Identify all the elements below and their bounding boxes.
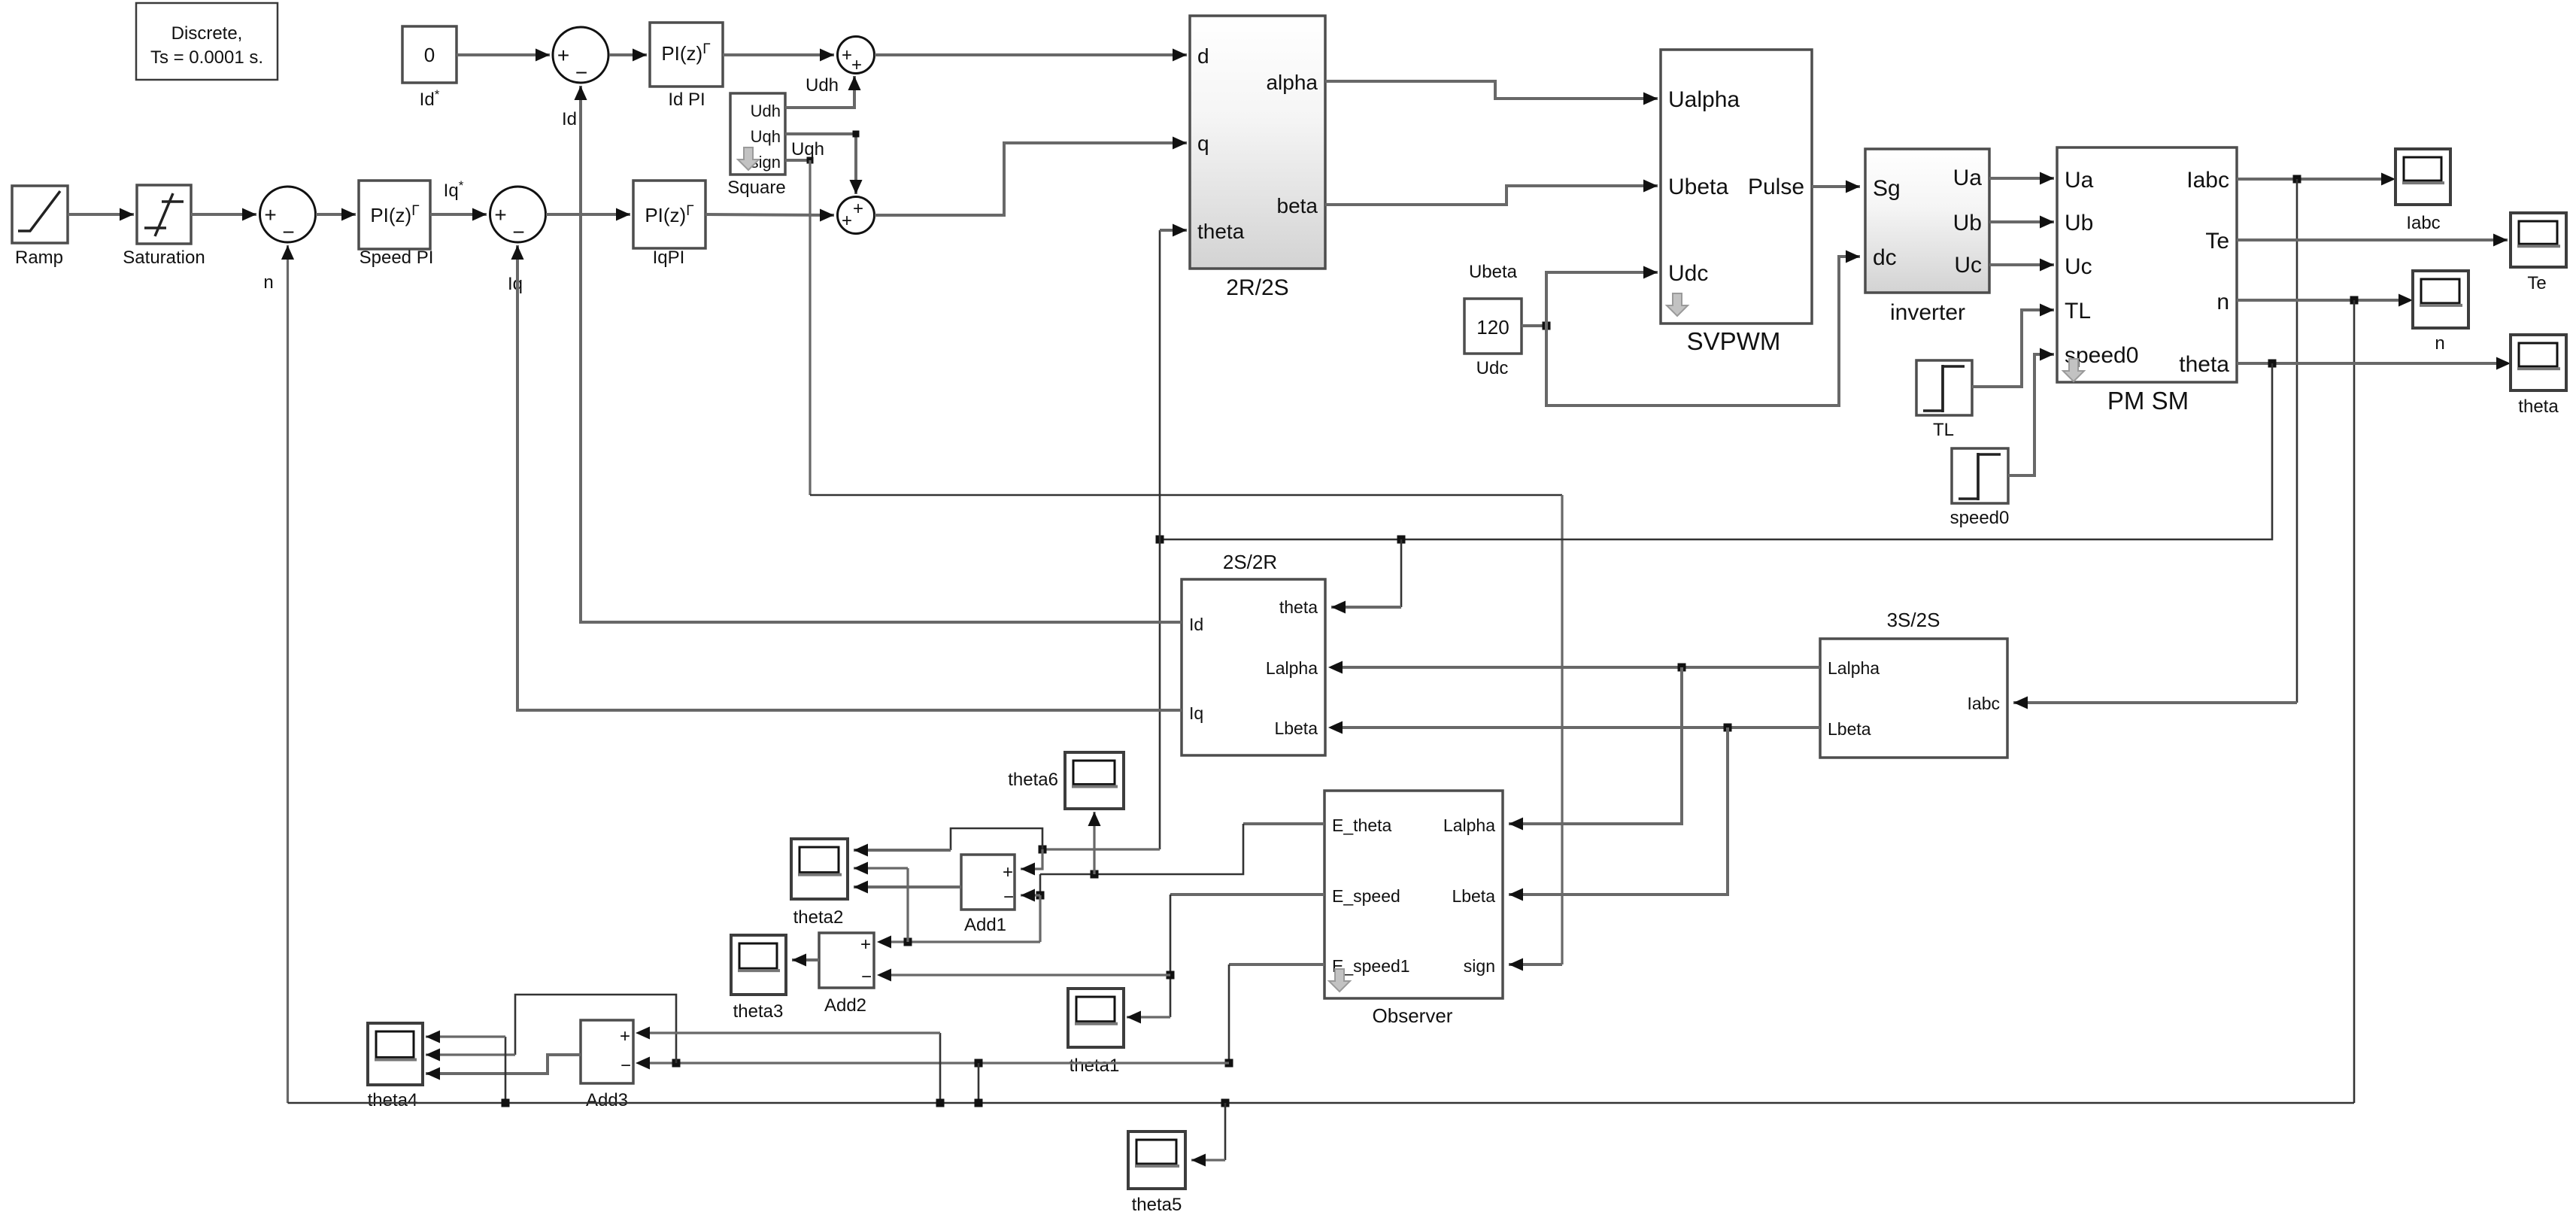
wire speed sum to Speed PI xyxy=(316,213,356,216)
svg-text:Lbeta: Lbeta xyxy=(1828,719,1871,739)
wire bus branch down to scope theta5 xyxy=(1224,1103,1227,1160)
svg-text:+: + xyxy=(264,203,276,226)
svg-text:Square: Square xyxy=(727,178,785,198)
svg-text:Uqh: Uqh xyxy=(751,127,781,146)
wire E_theta branch to scope theta2 input 2 xyxy=(906,868,909,942)
svg-text:Iabc: Iabc xyxy=(2186,168,2229,193)
svg-text:Uqh: Uqh xyxy=(791,139,824,159)
svg-text:theta1: theta1 xyxy=(1070,1056,1120,1076)
block TL step source xyxy=(1916,360,1972,415)
wire Saturation to speed sum xyxy=(191,213,256,216)
scope theta6 xyxy=(1065,752,1124,809)
svg-text:SVPWM: SVPWM xyxy=(1687,327,1781,355)
block Add2 (mirrored) xyxy=(819,933,874,988)
svg-text:theta: theta xyxy=(2518,396,2559,417)
wire 2S/2R Id output feedback to Id sum xyxy=(581,86,1182,622)
wire Id PI to Udh sum xyxy=(723,53,834,56)
svg-text:120: 120 xyxy=(1476,316,1509,339)
wire Observer E_theta to Add1 minus, Add2 plus, theta2, theta6 xyxy=(1243,822,1324,825)
svg-text:Te: Te xyxy=(2205,229,2229,254)
wire Uqh sum to 2R/2S q input xyxy=(875,143,1187,215)
wire Add2 output to scope theta3 xyxy=(792,958,819,961)
svg-text:−: − xyxy=(282,220,294,244)
svg-text:+: + xyxy=(853,199,863,219)
sum Id error xyxy=(553,27,608,83)
block Speed PI xyxy=(359,181,430,249)
svg-text:+: + xyxy=(620,1026,630,1046)
wire 120 to SVPWM Udc and inverter dc xyxy=(1522,324,1546,327)
svg-text:+: + xyxy=(860,934,871,955)
wire E_speed1 connection to bottom bus xyxy=(978,1063,980,1103)
svg-text:Ub: Ub xyxy=(2065,211,2093,235)
svg-text:Ubeta: Ubeta xyxy=(1469,262,1518,282)
annotation Discrete Ts box xyxy=(136,3,278,80)
svg-text:Ts = 0.0001 s.: Ts = 0.0001 s. xyxy=(150,47,263,68)
svg-text:Speed PI: Speed PI xyxy=(360,248,434,268)
svg-text:Ub: Ub xyxy=(1953,211,1982,235)
wire n feedback arrow into speed sum xyxy=(287,245,289,1103)
subsystem inverter xyxy=(1865,149,1989,293)
svg-text:sign: sign xyxy=(1464,956,1495,976)
svg-text:n: n xyxy=(2435,333,2444,354)
scope theta4 xyxy=(368,1023,423,1085)
scope theta2 xyxy=(791,839,848,899)
block constant 0 (Id*) xyxy=(402,26,457,83)
svg-text:TL: TL xyxy=(2065,299,2091,324)
wire 3S/2S Lalpha to 2S/2R Lalpha and Observer Lalpha xyxy=(1331,666,1820,669)
svg-text:Udh: Udh xyxy=(751,102,781,120)
wire speed0 to PMSM speed0 input xyxy=(2008,354,2054,475)
svg-text:2R/2S: 2R/2S xyxy=(1226,275,1288,300)
wire inverter Uc to PMSM Uc xyxy=(1989,263,2054,266)
wire theta branch down into 2S/2R theta input xyxy=(1400,539,1403,607)
svg-text:3S/2S: 3S/2S xyxy=(1887,609,1940,631)
wire SVPWM Pulse to inverter Sg xyxy=(1812,185,1860,188)
wire bottom feedback bus (n) xyxy=(288,1102,2355,1104)
wire PMSM n to scope n and down to bottom bus xyxy=(2237,299,2410,302)
svg-text:Iq: Iq xyxy=(1189,703,1203,723)
svg-text:+: + xyxy=(842,45,852,65)
scope theta3 xyxy=(731,935,786,995)
svg-text:IqPI: IqPI xyxy=(653,248,685,268)
block constant 120 (Udc source) xyxy=(1464,299,1522,354)
wire Id sum to Id PI xyxy=(609,53,647,56)
subsystem SVPWM xyxy=(1661,50,1812,324)
svg-text:−: − xyxy=(512,220,524,244)
block Add1 (mirrored) xyxy=(961,855,1015,910)
svg-text:inverter: inverter xyxy=(1890,300,1965,325)
wire theta lower branch to Add1 area xyxy=(1042,848,1160,850)
sum Uqh (small) xyxy=(838,197,875,234)
block Add3 (mirrored) xyxy=(581,1020,633,1083)
wire sign from Square down and across to Observer sign input xyxy=(785,159,810,162)
svg-text:Lalpha: Lalpha xyxy=(1828,658,1880,678)
block Square (HF injection) xyxy=(730,93,785,175)
subsystem 2R/2S xyxy=(1190,16,1325,269)
svg-text:Iq: Iq xyxy=(508,274,523,294)
svg-text:theta: theta xyxy=(1279,597,1318,617)
svg-text:−: − xyxy=(861,967,872,987)
scope theta xyxy=(2511,335,2566,390)
svg-text:Iabc: Iabc xyxy=(2406,213,2440,233)
svg-text:Lbeta: Lbeta xyxy=(1274,718,1318,738)
svg-text:Ualpha: Ualpha xyxy=(1668,87,1740,112)
svg-text:n: n xyxy=(2216,290,2229,314)
svg-text:theta: theta xyxy=(2179,352,2229,377)
svg-text:Uc: Uc xyxy=(2065,254,2092,279)
svg-text:Ua: Ua xyxy=(1953,166,1983,190)
svg-text:Observer: Observer xyxy=(1373,1004,1453,1027)
svg-text:Ramp: Ramp xyxy=(15,248,63,268)
sum speed (n error) xyxy=(260,187,316,242)
svg-text:Ua: Ua xyxy=(2065,168,2094,193)
wire Square Udh output up into Udh sum, label Udh xyxy=(785,76,854,108)
svg-text:alpha: alpha xyxy=(1266,71,1318,94)
svg-text:Lbeta: Lbeta xyxy=(1452,886,1495,906)
wire IqPI to Uqh sum xyxy=(705,214,834,215)
svg-text:beta: beta xyxy=(1277,194,1318,217)
svg-text:dc: dc xyxy=(1873,245,1897,270)
wire Ramp to Saturation xyxy=(68,213,134,216)
wire inverter Ua to PMSM Ua xyxy=(1989,177,2054,180)
subsystem Observer xyxy=(1324,791,1503,998)
svg-text:+: + xyxy=(851,55,862,75)
svg-text:−: − xyxy=(620,1056,631,1076)
wire bridge over Add3 to scope theta4 input 2 xyxy=(515,995,676,1063)
svg-text:Id: Id xyxy=(1189,615,1203,634)
scope theta1 xyxy=(1068,989,1124,1047)
wire TL to PMSM TL input xyxy=(1972,310,2054,387)
block Saturation xyxy=(137,185,191,244)
svg-text:+: + xyxy=(1003,862,1013,882)
scope Iabc xyxy=(2395,149,2450,205)
svg-text:theta6: theta6 xyxy=(1008,770,1058,790)
svg-text:−: − xyxy=(1003,887,1014,907)
svg-text:0: 0 xyxy=(424,44,435,66)
wire theta bridge over Add1 to scope theta2 input 1 xyxy=(951,828,1042,850)
svg-text:+: + xyxy=(842,211,852,231)
svg-text:2S/2R: 2S/2R xyxy=(1223,551,1277,573)
svg-text:theta3: theta3 xyxy=(733,1001,784,1022)
svg-text:+: + xyxy=(557,44,569,67)
svg-text:Sg: Sg xyxy=(1873,176,1901,201)
subsystem PM SM xyxy=(2057,147,2237,382)
svg-text:Udc: Udc xyxy=(1476,358,1509,378)
svg-text:E_theta: E_theta xyxy=(1332,816,1391,835)
wire theta branch up into 2R/2S theta input xyxy=(1159,230,1161,849)
wire Udh sum to 2R/2S d input xyxy=(875,53,1187,56)
wire inverter Ub to PMSM Ub xyxy=(1989,220,2054,223)
svg-text:−: − xyxy=(575,61,587,84)
svg-text:Add1: Add1 xyxy=(964,915,1006,935)
svg-text:Udc: Udc xyxy=(1668,261,1708,286)
svg-text:speed0: speed0 xyxy=(1950,508,2010,528)
wire bottom bus branch up to Add3 plus input xyxy=(939,1033,942,1103)
svg-text:Add2: Add2 xyxy=(824,995,866,1016)
svg-text:Ubeta: Ubeta xyxy=(1668,175,1728,199)
svg-text:PM SM: PM SM xyxy=(2107,387,2189,415)
svg-text:Te: Te xyxy=(2527,273,2546,293)
sum Iq error xyxy=(490,187,546,242)
svg-text:Lalpha: Lalpha xyxy=(1443,816,1495,835)
wire Add3 output to scope theta4 input 3 xyxy=(426,1055,581,1074)
svg-text:Iabc: Iabc xyxy=(1968,694,2000,713)
wire theta bus vertical and horizontal xyxy=(1160,363,2272,539)
svg-text:d: d xyxy=(1197,44,1209,68)
wire Observer E_speed1 to Add3 minus line xyxy=(1229,963,1324,966)
svg-text:+: + xyxy=(494,203,506,226)
wire Iq sum to IqPI xyxy=(546,213,630,216)
svg-text:Id PI: Id PI xyxy=(668,90,705,110)
svg-text:Uc: Uc xyxy=(1954,253,1982,278)
svg-text:TL: TL xyxy=(1933,420,1954,440)
sum Udh (small) xyxy=(838,37,875,74)
svg-text:theta2: theta2 xyxy=(793,907,844,928)
svg-text:Pulse: Pulse xyxy=(1748,175,1804,199)
svg-text:theta5: theta5 xyxy=(1132,1195,1182,1212)
wire Observer E_speed to Add2 minus and scope theta1 xyxy=(1170,893,1324,896)
svg-text:theta4: theta4 xyxy=(368,1090,418,1110)
svg-text:Udh: Udh xyxy=(806,75,839,96)
svg-text:n: n xyxy=(263,272,273,293)
scope n xyxy=(2413,271,2468,328)
svg-text:Lalpha: Lalpha xyxy=(1266,658,1318,678)
wire bottom bus branch up to scope theta4 input 1 xyxy=(505,1037,507,1103)
svg-text:Add3: Add3 xyxy=(586,1090,628,1110)
wire PMSM Te to scope Te xyxy=(2237,238,2508,241)
svg-text:E_speed: E_speed xyxy=(1332,886,1400,906)
wire beta to SVPWM Ubeta xyxy=(1325,186,1658,205)
scope theta5 xyxy=(1128,1132,1185,1189)
svg-text:theta: theta xyxy=(1197,220,1245,243)
svg-text:q: q xyxy=(1197,132,1209,155)
block IqPI xyxy=(633,181,705,248)
svg-text:Discrete,: Discrete, xyxy=(171,23,243,44)
block Ramp xyxy=(12,186,68,243)
svg-text:Saturation: Saturation xyxy=(123,248,205,268)
wire PMSM theta to scope theta and theta bus xyxy=(2237,362,2508,365)
wire Speed PI to Iq sum, label Iq* xyxy=(430,213,487,216)
block Id PI xyxy=(650,23,723,87)
wire theta into Add1 plus input xyxy=(1021,849,1042,869)
wire Square Uqh output down into Uqh sum, label Uqh xyxy=(785,134,856,194)
wire 2S/2R Iq output feedback to Iq sum xyxy=(517,245,1182,710)
scope Te xyxy=(2511,213,2566,267)
wire Add1 output to scope theta2 input 3 xyxy=(854,885,961,888)
wire E_theta branch up into scope theta6 xyxy=(1093,812,1095,874)
svg-text:Id: Id xyxy=(562,109,577,129)
block speed0 step source xyxy=(1952,448,2008,503)
wire 0 to Id sum xyxy=(457,53,550,56)
wire PMSM Iabc to scope and down to 3S/2S xyxy=(2237,178,2392,181)
wire 3S/2S Lbeta to 2S/2R Lbeta and Observer Lbeta xyxy=(1331,726,1820,729)
wire alpha to SVPWM Ualpha xyxy=(1325,81,1658,99)
